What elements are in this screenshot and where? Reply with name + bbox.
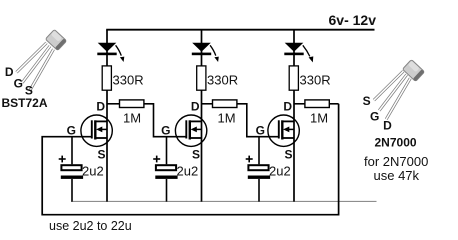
- wire C1 bottom lead: [71, 179, 73, 202]
- LED D3 arrow: [303, 45, 310, 56]
- capacitor C1 plus sign: [59, 158, 66, 160]
- capacitor C1: [61, 165, 81, 170]
- transistor Q3: [268, 115, 299, 146]
- svg-text:D: D: [5, 65, 14, 79]
- wire column stage2: [201, 30, 203, 202]
- svg-text:G: G: [67, 123, 76, 137]
- capacitor C3 plus sign: [246, 158, 253, 160]
- LED D1 arrow: [116, 45, 122, 55]
- LED D2: [192, 43, 211, 52]
- svg-text:2u2: 2u2: [177, 164, 199, 179]
- svg-text:S: S: [192, 147, 200, 161]
- net +V top rail: [106, 29, 374, 31]
- lead D: [17, 43, 47, 73]
- wire R5 to Q3 gate: [237, 104, 279, 137]
- svg-text:2u2: 2u2: [82, 164, 104, 179]
- lead G: [379, 75, 407, 111]
- resistor R1 330R: [102, 66, 111, 90]
- resistor R4 1M: [120, 100, 144, 108]
- resistor R5 1M: [213, 100, 237, 108]
- lead S: [374, 71, 403, 100]
- wire feedback loop Q3 drain to Q1 gate: [42, 104, 338, 215]
- lead D: [386, 78, 410, 119]
- lead G: [22, 46, 50, 83]
- svg-text:1M: 1M: [310, 111, 328, 126]
- wire R6 to loop: [329, 103, 338, 105]
- wire 1M stub: [294, 103, 305, 105]
- wire 1M stub: [202, 103, 213, 105]
- svg-text:G: G: [14, 76, 23, 90]
- svg-text:D: D: [283, 99, 292, 113]
- svg-text:2N7000: 2N7000: [375, 136, 417, 150]
- wire column stage1: [106, 30, 108, 202]
- transistor Q2: [175, 115, 206, 146]
- svg-text:for 2N7000: for 2N7000: [364, 154, 428, 169]
- LED D3: [285, 43, 304, 52]
- svg-text:330R: 330R: [113, 72, 144, 87]
- svg-text:G: G: [161, 123, 170, 137]
- lead S: [30, 49, 54, 91]
- capacitor C2 plus sign: [153, 158, 160, 160]
- wire C2 top lead: [166, 137, 168, 165]
- resistor R3 330R: [289, 66, 298, 90]
- svg-text:D: D: [96, 99, 105, 113]
- svg-text:D: D: [383, 118, 392, 132]
- wire column stage3: [293, 30, 295, 202]
- wire C3 bottom lead: [258, 179, 260, 202]
- svg-text:BST72A: BST72A: [2, 96, 48, 110]
- capacitor C2: [156, 165, 176, 170]
- wire C1 top lead: [71, 137, 73, 165]
- resistor R2 330R: [197, 66, 206, 90]
- body BST72A package: [45, 29, 66, 50]
- svg-text:S: S: [284, 147, 292, 161]
- svg-text:S: S: [363, 94, 371, 108]
- svg-text:330R: 330R: [207, 72, 238, 87]
- stage 1: [59, 30, 187, 202]
- svg-text:use 47k: use 47k: [374, 168, 420, 183]
- wire C3 top lead: [258, 137, 260, 165]
- svg-text:6v- 12v: 6v- 12v: [329, 12, 377, 28]
- capacitor C3: [248, 165, 268, 170]
- stage 3: [246, 30, 339, 202]
- transistor Q1: [81, 115, 112, 146]
- package drawing 2N7000 (right): [363, 60, 429, 183]
- wire C2 bottom lead: [166, 179, 168, 202]
- wire 1M stub: [107, 103, 120, 105]
- svg-text:S: S: [97, 147, 105, 161]
- svg-text:G: G: [256, 123, 265, 137]
- package drawing BST72A (left): [2, 29, 67, 110]
- svg-text:330R: 330R: [300, 72, 331, 87]
- net 0V rail (grey): [71, 200, 377, 202]
- LED D2 arrow: [210, 45, 216, 55]
- wire R4 to Q2 gate: [144, 104, 186, 137]
- svg-text:G: G: [370, 110, 379, 124]
- resistor R6 1M: [305, 100, 329, 108]
- stage 2: [153, 30, 279, 202]
- svg-text:2u2: 2u2: [269, 164, 291, 179]
- svg-text:D: D: [191, 99, 200, 113]
- svg-text:use 2u2 to 22u: use 2u2 to 22u: [49, 219, 132, 231]
- svg-text:1M: 1M: [218, 111, 236, 126]
- LED D1: [98, 43, 117, 52]
- svg-text:1M: 1M: [123, 111, 141, 126]
- body 2N7000 package: [402, 60, 424, 82]
